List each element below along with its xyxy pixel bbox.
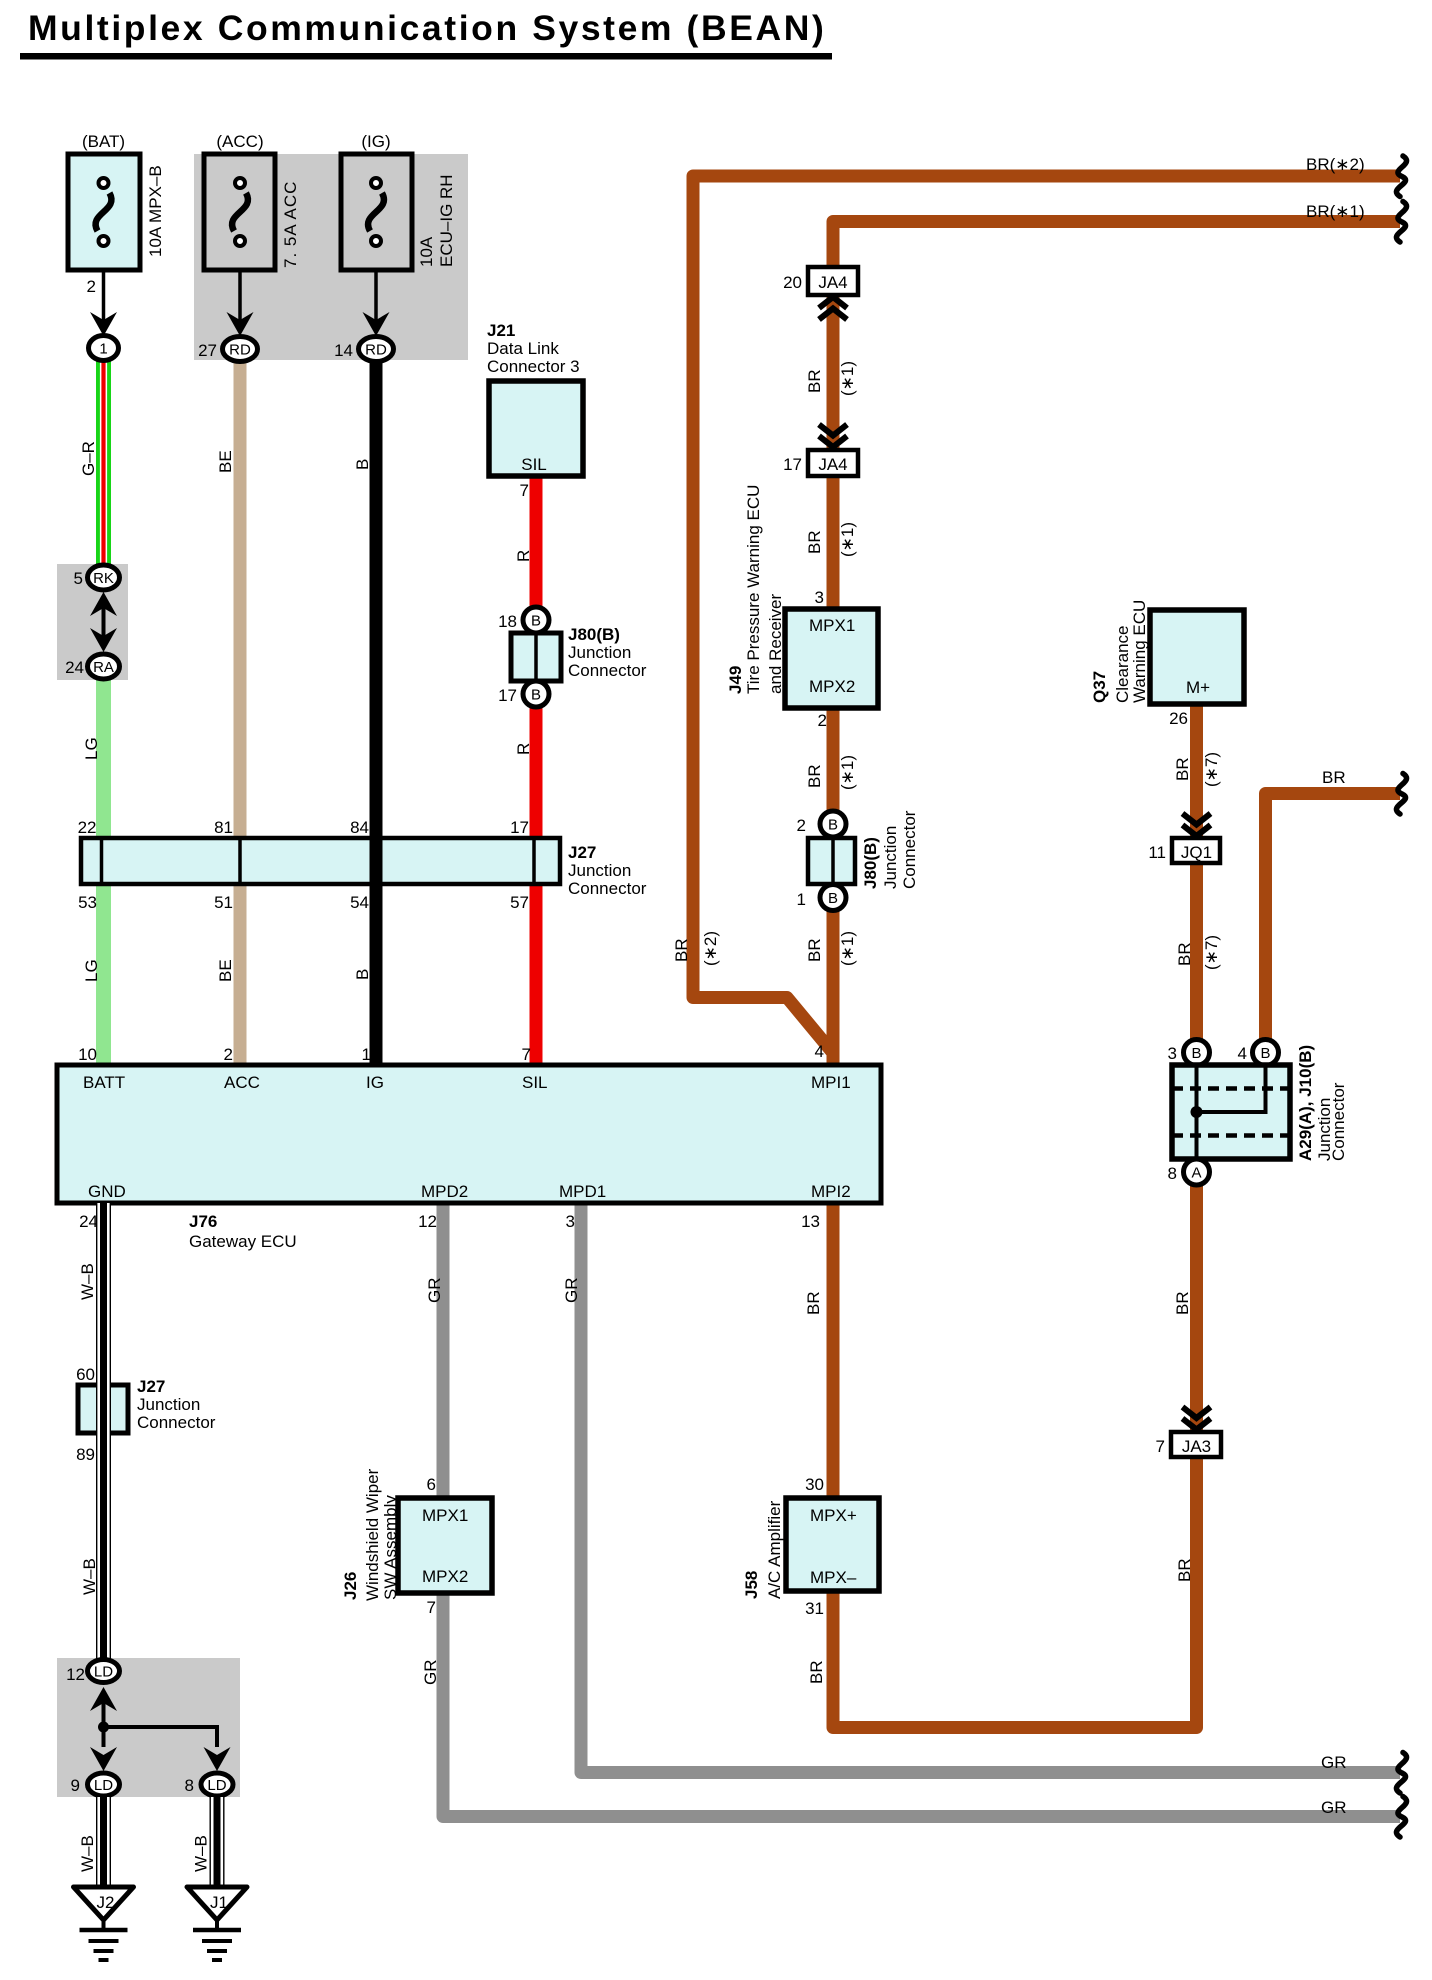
svg-text:BR(∗1): BR(∗1) xyxy=(1306,202,1365,221)
svg-text:MPX1: MPX1 xyxy=(809,616,855,635)
svg-text:B: B xyxy=(1260,1045,1270,1062)
svg-text:W–B: W–B xyxy=(192,1835,211,1872)
svg-text:7: 7 xyxy=(427,1598,436,1617)
svg-text:BR: BR xyxy=(1173,1291,1192,1315)
wire BE upper (ACC to J27) xyxy=(234,361,247,840)
wire R lower (J27 to J76 SIL) xyxy=(530,882,543,1067)
grey highlight behind connectors RK/RA xyxy=(57,564,128,680)
wire B crossing J27 bar xyxy=(370,836,383,886)
svg-text:Tire Pressure Warning ECU: Tire Pressure Warning ECU xyxy=(744,485,763,694)
svg-text:(IG): (IG) xyxy=(361,132,390,151)
wire GR from J26 MPX2 to right edge xyxy=(443,1591,1400,1817)
svg-text:J58: J58 xyxy=(742,1571,761,1599)
svg-text:Multiplex Communication System: Multiplex Communication System (BEAN) xyxy=(28,8,826,48)
svg-text:Connector: Connector xyxy=(568,879,647,898)
wire W-B to ground J2 xyxy=(96,1797,111,1889)
svg-text:(∗1): (∗1) xyxy=(838,361,857,396)
svg-text:17: 17 xyxy=(498,686,517,705)
label J26 rotated xyxy=(341,1468,400,1601)
svg-text:22: 22 xyxy=(78,818,97,837)
connector RD (IG) xyxy=(359,337,394,362)
connector JA4 (pin 17) xyxy=(808,450,858,476)
mating chevrons above JA4 17 xyxy=(819,436,847,447)
svg-text:3: 3 xyxy=(1168,1044,1177,1063)
connector JQ1 xyxy=(1172,838,1220,863)
svg-text:2: 2 xyxy=(818,711,827,730)
break symbol GR upper xyxy=(1396,1753,1406,1794)
wire GR from J76 MPD1 to right edge xyxy=(581,1203,1400,1773)
svg-text:J76: J76 xyxy=(189,1212,217,1231)
svg-text:17: 17 xyxy=(510,818,529,837)
wire BR from JQ1 to A29 pin 3 xyxy=(1190,861,1203,1041)
svg-text:BR: BR xyxy=(805,530,824,554)
wire BR from J58 MPX- down, right, up to JA3 xyxy=(833,1452,1197,1728)
junction connector J80(B) box on SIL wire xyxy=(511,633,561,681)
svg-text:Data Link: Data Link xyxy=(487,339,559,358)
wire W-B to ground J1 xyxy=(210,1797,225,1889)
svg-text:ECU–IG RH: ECU–IG RH xyxy=(437,174,456,267)
svg-text:and Receiver: and Receiver xyxy=(766,593,785,694)
label BR (*7) segment 2 xyxy=(1175,935,1221,970)
ground J2 xyxy=(74,1887,134,1920)
wire BR(*2) from top-right to MPI1 junction xyxy=(693,176,1400,1053)
svg-text:GR: GR xyxy=(1321,1798,1347,1817)
svg-text:12: 12 xyxy=(418,1212,437,1231)
svg-text:24: 24 xyxy=(79,1212,98,1231)
svg-text:JA4: JA4 xyxy=(818,273,847,292)
svg-text:IG: IG xyxy=(366,1073,384,1092)
svg-text:J26: J26 xyxy=(341,1572,360,1600)
label J27 small junction connector xyxy=(137,1377,216,1432)
connector pin A (8) xyxy=(1184,1159,1210,1185)
svg-text:89: 89 xyxy=(76,1445,95,1464)
connector pin B (17) xyxy=(523,681,549,707)
wire R upper (J21 SIL to J27) xyxy=(530,474,543,840)
wire branch to LD 8 xyxy=(104,1727,218,1747)
svg-text:W–B: W–B xyxy=(80,1558,99,1595)
svg-text:7. 5A ACC: 7. 5A ACC xyxy=(281,181,300,268)
svg-text:(∗1): (∗1) xyxy=(838,931,857,966)
svg-text:SIL: SIL xyxy=(521,455,547,474)
svg-text:26: 26 xyxy=(1169,709,1188,728)
svg-text:G–R: G–R xyxy=(79,441,98,476)
svg-text:MPX1: MPX1 xyxy=(422,1506,468,1525)
svg-text:3: 3 xyxy=(566,1212,575,1231)
svg-text:14: 14 xyxy=(334,341,353,360)
label J80(B) junction connector xyxy=(568,625,647,680)
svg-text:B: B xyxy=(828,817,838,834)
svg-text:51: 51 xyxy=(214,893,233,912)
svg-text:GR: GR xyxy=(1321,1753,1347,1772)
svg-text:12: 12 xyxy=(66,1665,85,1684)
svg-text:Connector: Connector xyxy=(568,661,647,680)
svg-text:BR: BR xyxy=(1173,757,1192,781)
svg-text:10: 10 xyxy=(78,1045,97,1064)
connector pin B (4) xyxy=(1253,1040,1279,1066)
svg-text:J2: J2 xyxy=(97,1893,115,1912)
svg-text:Junction: Junction xyxy=(568,643,631,662)
break symbol GR lower xyxy=(1396,1797,1406,1838)
connector JA4 (pin 20) xyxy=(808,267,858,295)
label BR (*7) segment 1 xyxy=(1173,752,1221,787)
svg-text:Junction: Junction xyxy=(881,826,900,889)
label BR (*1) segment 2 xyxy=(805,522,857,557)
svg-text:31: 31 xyxy=(805,1599,824,1618)
svg-text:J21: J21 xyxy=(487,321,515,340)
label 10A ECU-IG RH rotated xyxy=(417,174,456,267)
wire BAT fuse to connector 1 xyxy=(102,270,106,325)
wire BR(*1) from top-right through JA4/J49/J80(B) to J76 MPI1 xyxy=(833,222,1400,1066)
svg-text:(∗1): (∗1) xyxy=(838,522,857,557)
fuse (IG) 10A ECU-IG RH xyxy=(341,154,412,270)
label BR (*1) segment 4 xyxy=(805,931,857,966)
mating chevrons above JQ1 xyxy=(1183,825,1211,836)
svg-text:W–B: W–B xyxy=(78,1835,97,1872)
svg-text:B: B xyxy=(1191,1045,1201,1062)
svg-text:3: 3 xyxy=(815,588,824,607)
junction connector J27 small box xyxy=(78,1385,128,1433)
svg-text:Connector: Connector xyxy=(137,1413,216,1432)
svg-text:Windshield Wiper: Windshield Wiper xyxy=(363,1468,382,1601)
svg-text:7: 7 xyxy=(1156,1437,1165,1456)
svg-text:5: 5 xyxy=(74,569,83,588)
svg-text:GR: GR xyxy=(425,1278,444,1304)
mating arrow below LD 12 xyxy=(102,1700,106,1727)
label BR (*1) segment 3 xyxy=(805,755,857,790)
svg-text:LD: LD xyxy=(207,1777,226,1794)
wire W-B from GND to LD xyxy=(96,1203,111,1659)
svg-text:J27: J27 xyxy=(137,1377,165,1396)
svg-text:RK: RK xyxy=(93,570,114,587)
svg-text:SW Assembly: SW Assembly xyxy=(381,1495,400,1600)
svg-text:A/C Amplifier: A/C Amplifier xyxy=(765,1500,784,1599)
svg-text:BR: BR xyxy=(1322,768,1346,787)
svg-text:MPX2: MPX2 xyxy=(809,677,855,696)
svg-text:J49: J49 xyxy=(726,666,745,694)
svg-text:2: 2 xyxy=(87,277,96,296)
svg-text:LD: LD xyxy=(94,1664,113,1681)
svg-text:BR(∗2): BR(∗2) xyxy=(1306,155,1365,174)
svg-text:Junction: Junction xyxy=(568,861,631,880)
svg-text:J80(B): J80(B) xyxy=(568,625,620,644)
svg-text:(∗2): (∗2) xyxy=(701,931,720,966)
svg-text:Connector: Connector xyxy=(900,810,919,889)
wire BR from A29 pin 8 to JA3 xyxy=(1190,1183,1203,1434)
mating arrow above LD 8 xyxy=(204,1747,231,1771)
mating chevrons below JA4 20 xyxy=(819,297,847,308)
junction connector J80(B) box on brown wire xyxy=(808,838,855,884)
svg-text:24: 24 xyxy=(65,658,84,677)
svg-text:LD: LD xyxy=(94,1777,113,1794)
svg-text:84: 84 xyxy=(350,818,369,837)
svg-text:M+: M+ xyxy=(1186,678,1210,697)
wire LG upper (RA to J27) xyxy=(96,678,111,840)
mating chevrons above JA3 xyxy=(1183,1419,1211,1430)
svg-text:JA3: JA3 xyxy=(1182,1437,1211,1456)
wire B (IG to J76 IG) xyxy=(370,361,383,1067)
svg-text:RD: RD xyxy=(365,342,387,359)
svg-text:57: 57 xyxy=(510,893,529,912)
svg-text:ACC: ACC xyxy=(224,1073,260,1092)
wire BR from Q37 M+ to JQ1 xyxy=(1190,702,1203,842)
svg-text:53: 53 xyxy=(78,893,97,912)
svg-text:R: R xyxy=(514,550,533,562)
svg-text:4: 4 xyxy=(1238,1044,1247,1063)
svg-text:MPD1: MPD1 xyxy=(559,1182,606,1201)
component J76 Gateway ECU xyxy=(57,1065,881,1203)
svg-text:8: 8 xyxy=(185,1776,194,1795)
svg-text:4: 4 xyxy=(815,1042,824,1061)
svg-text:2: 2 xyxy=(797,816,806,835)
connector pin B (18) xyxy=(523,607,549,633)
component J26 Windshield Wiper SW Assembly xyxy=(398,1498,492,1593)
svg-text:7: 7 xyxy=(522,1045,531,1064)
svg-text:SIL: SIL xyxy=(522,1073,548,1092)
svg-text:60: 60 xyxy=(76,1365,95,1384)
svg-text:81: 81 xyxy=(214,818,233,837)
connector JA3 xyxy=(1171,1432,1221,1457)
svg-text:(BAT): (BAT) xyxy=(82,132,125,151)
svg-text:(∗7): (∗7) xyxy=(1202,752,1221,787)
junction connector J27 bar xyxy=(81,838,560,884)
label J80(B) junction connector rotated xyxy=(861,810,919,889)
wire BR from J76 MPI2 to J58 MPX+ xyxy=(827,1203,840,1500)
label Q37 rotated xyxy=(1090,600,1149,703)
svg-text:(∗1): (∗1) xyxy=(838,755,857,790)
break symbol BR right xyxy=(1396,774,1406,815)
wire stem to LD 9 xyxy=(102,1727,106,1747)
svg-text:LG: LG xyxy=(82,737,101,760)
svg-text:1: 1 xyxy=(797,890,806,909)
fuse (ACC) 7.5A ACC xyxy=(204,154,275,270)
svg-text:Connector: Connector xyxy=(1329,1082,1348,1161)
label J76 Gateway ECU xyxy=(189,1212,297,1251)
label J27 junction connector xyxy=(568,843,647,898)
svg-text:R: R xyxy=(514,743,533,755)
component J58 A/C Amplifier xyxy=(786,1498,879,1591)
svg-text:1: 1 xyxy=(99,341,107,358)
svg-text:BE: BE xyxy=(216,450,235,473)
svg-text:10A: 10A xyxy=(417,236,436,267)
svg-text:BR: BR xyxy=(805,369,824,393)
connector RD (ACC) xyxy=(223,337,258,362)
svg-text:B: B xyxy=(828,890,838,907)
component J21 Data Link Connector 3 xyxy=(489,381,583,476)
svg-text:(∗7): (∗7) xyxy=(1202,935,1221,970)
svg-text:18: 18 xyxy=(498,612,517,631)
svg-text:2: 2 xyxy=(224,1045,233,1064)
wire LG lower (J27 to J76 BATT) xyxy=(96,882,111,1067)
label J49 rotated xyxy=(726,485,785,694)
svg-text:RA: RA xyxy=(93,659,114,676)
svg-text:8: 8 xyxy=(1168,1164,1177,1183)
svg-text:J1: J1 xyxy=(210,1893,228,1912)
svg-text:6: 6 xyxy=(427,1475,436,1494)
ground J1 xyxy=(187,1887,247,1920)
node junction dot xyxy=(98,1722,109,1733)
svg-text:Q37: Q37 xyxy=(1090,671,1109,703)
svg-text:20: 20 xyxy=(783,273,802,292)
svg-text:BR: BR xyxy=(805,938,824,962)
svg-text:RD: RD xyxy=(229,342,251,359)
break symbol BR(*2) xyxy=(1396,156,1406,197)
svg-text:B: B xyxy=(353,969,372,980)
svg-text:Connector 3: Connector 3 xyxy=(487,357,580,376)
connector pin B (3) xyxy=(1184,1040,1210,1066)
mating arrow above LD 9 xyxy=(90,1747,117,1771)
wire BE lower (J27 to J76 ACC) xyxy=(234,882,247,1067)
svg-text:B: B xyxy=(531,613,541,630)
connector LD (12) xyxy=(88,1660,120,1683)
svg-text:GND: GND xyxy=(88,1182,126,1201)
label J58 rotated xyxy=(742,1500,784,1599)
svg-text:JA4: JA4 xyxy=(818,455,847,474)
wire GR from J76 MPD2 to J26 MPX1 xyxy=(437,1203,450,1500)
svg-text:7: 7 xyxy=(520,481,529,500)
svg-text:J80(B): J80(B) xyxy=(861,837,880,889)
svg-text:30: 30 xyxy=(805,1475,824,1494)
break symbol BR(*1) xyxy=(1396,202,1406,243)
svg-text:J27: J27 xyxy=(568,843,596,862)
label BR (*1) segment 1 xyxy=(805,361,857,396)
component J49 Tire Pressure Warning ECU and Receiver xyxy=(785,609,878,708)
svg-text:GR: GR xyxy=(562,1278,581,1304)
svg-text:MPI2: MPI2 xyxy=(811,1182,851,1201)
svg-text:13: 13 xyxy=(801,1212,820,1231)
grey highlight behind connectors LD xyxy=(57,1658,240,1797)
svg-text:JQ1: JQ1 xyxy=(1181,843,1212,862)
svg-text:A29(A), J10(B): A29(A), J10(B) xyxy=(1296,1045,1315,1161)
svg-text:1: 1 xyxy=(362,1045,371,1064)
svg-text:17: 17 xyxy=(783,455,802,474)
svg-text:BR: BR xyxy=(1175,942,1194,966)
svg-text:54: 54 xyxy=(350,893,369,912)
connector 1 xyxy=(89,336,119,361)
svg-text:BR: BR xyxy=(1175,1558,1194,1582)
svg-text:BR: BR xyxy=(672,938,691,962)
svg-text:9: 9 xyxy=(71,1776,80,1795)
connector RA xyxy=(88,654,120,679)
svg-text:B: B xyxy=(353,459,372,470)
grey highlight behind ACC and IG fuses xyxy=(194,154,468,360)
svg-text:A: A xyxy=(1191,1165,1201,1182)
svg-text:MPI1: MPI1 xyxy=(811,1073,851,1092)
svg-text:(ACC): (ACC) xyxy=(216,132,263,151)
fuse (BAT) 10A MPX-B xyxy=(68,154,140,270)
wire IG fuse to connector RD xyxy=(374,270,378,325)
svg-text:BE: BE xyxy=(216,959,235,982)
svg-text:BR: BR xyxy=(805,764,824,788)
svg-text:MPD2: MPD2 xyxy=(421,1182,468,1201)
title underline xyxy=(20,53,832,60)
label A29(A) J10(B) rotated xyxy=(1296,1045,1348,1161)
junction connector A29(A) J10(B) box xyxy=(1172,1065,1290,1159)
connector RK xyxy=(88,565,120,590)
svg-text:LG: LG xyxy=(82,959,101,982)
svg-text:Junction: Junction xyxy=(137,1395,200,1414)
svg-text:W–B: W–B xyxy=(78,1263,97,1300)
svg-text:BATT: BATT xyxy=(83,1073,125,1092)
svg-text:B: B xyxy=(531,687,541,704)
svg-text:MPX2: MPX2 xyxy=(422,1567,468,1586)
label J21 xyxy=(487,321,580,376)
wire BR from right edge to A29 pin 4 xyxy=(1266,794,1401,1042)
mating arrows RK-RA xyxy=(102,600,106,645)
svg-text:MPX–: MPX– xyxy=(810,1568,857,1587)
label BR (*2) segment xyxy=(672,931,720,966)
svg-text:BR: BR xyxy=(807,1660,826,1684)
svg-text:GR: GR xyxy=(421,1660,440,1686)
connector pin B (2) xyxy=(820,811,846,837)
component Q37 Clearance Warning ECU xyxy=(1150,610,1244,704)
wire G-R (BAT feed) xyxy=(96,360,111,565)
connector LD (9) xyxy=(88,1773,120,1796)
svg-text:BR: BR xyxy=(804,1291,823,1315)
svg-text:10A MPX–B: 10A MPX–B xyxy=(146,165,165,257)
svg-text:Gateway ECU: Gateway ECU xyxy=(189,1232,297,1251)
svg-text:MPX+: MPX+ xyxy=(810,1506,857,1525)
svg-text:11: 11 xyxy=(1148,843,1166,862)
wire ACC fuse to connector RD xyxy=(238,270,242,325)
connector LD (8) xyxy=(201,1773,233,1796)
svg-text:27: 27 xyxy=(198,341,217,360)
connector pin B (1) xyxy=(820,885,846,911)
svg-text:Warning ECU: Warning ECU xyxy=(1130,600,1149,703)
